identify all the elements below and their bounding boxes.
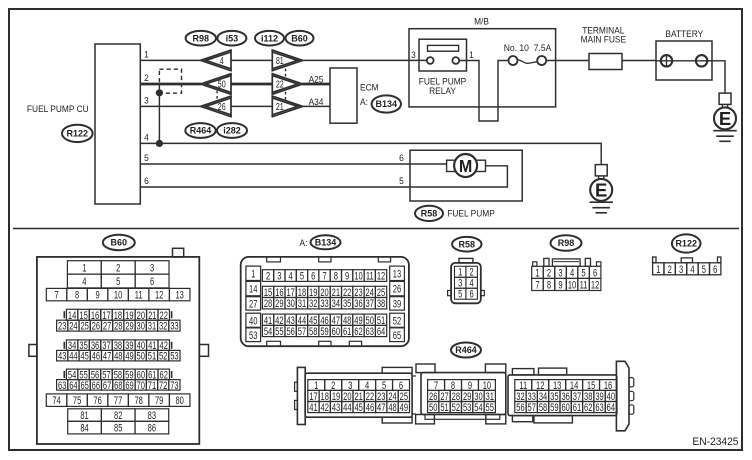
svg-text:21: 21 xyxy=(276,101,284,113)
svg-text:14: 14 xyxy=(249,283,257,296)
fuel pump box xyxy=(410,150,522,201)
svg-text:4: 4 xyxy=(690,263,694,276)
relay label FUEL PUMP RELAY xyxy=(419,76,467,96)
wire terminal main fuse to battery xyxy=(622,60,656,62)
junction dot on wire 4 xyxy=(156,140,163,147)
wire 3 segment A34 to ECM xyxy=(302,105,330,107)
svg-text:62: 62 xyxy=(584,402,592,415)
svg-text:No. 10: No. 10 xyxy=(504,43,529,54)
svg-text:49: 49 xyxy=(125,350,133,363)
B134 pins 28-38 row xyxy=(262,298,386,311)
connector symbol 21 on wire 3 xyxy=(272,96,303,117)
connector view B134 shell xyxy=(241,257,409,346)
svg-text:6: 6 xyxy=(144,176,149,187)
R464 section 3 body xyxy=(508,368,617,423)
svg-text:77: 77 xyxy=(114,395,122,408)
svg-text:2: 2 xyxy=(266,270,270,283)
svg-text:58: 58 xyxy=(309,326,317,339)
R464 section 2 body xyxy=(416,364,506,424)
R464 right end cap xyxy=(616,361,633,431)
svg-text:28: 28 xyxy=(264,298,272,311)
R58 pin grid xyxy=(455,266,478,301)
svg-text:50: 50 xyxy=(429,402,437,415)
svg-text:66: 66 xyxy=(92,379,100,392)
svg-text:34: 34 xyxy=(332,298,340,311)
connector symbol 26 on wire 3 xyxy=(201,96,232,117)
svg-text:35: 35 xyxy=(343,298,351,311)
svg-text:26: 26 xyxy=(218,101,226,113)
B60 pins 7-13 row xyxy=(46,288,190,302)
fuse No.10 left terminal xyxy=(509,56,518,65)
svg-text:46: 46 xyxy=(92,350,100,363)
svg-text:65: 65 xyxy=(393,329,401,342)
svg-text:1: 1 xyxy=(82,262,86,275)
svg-text:R98: R98 xyxy=(558,238,575,248)
svg-text:86: 86 xyxy=(148,422,156,435)
svg-text:5: 5 xyxy=(116,276,120,289)
svg-text:45: 45 xyxy=(80,350,88,363)
svg-text:58: 58 xyxy=(539,402,547,415)
battery box xyxy=(656,28,712,80)
svg-text:4: 4 xyxy=(144,132,149,143)
svg-text:26: 26 xyxy=(92,320,100,333)
svg-text:64: 64 xyxy=(607,402,615,415)
battery ground wire xyxy=(707,61,725,93)
wire 1 segment CU to connector i53 xyxy=(141,59,202,61)
fuel pump oval R58 xyxy=(415,206,443,221)
relay coil bar xyxy=(428,45,459,51)
svg-text:4: 4 xyxy=(289,270,293,283)
svg-text:70: 70 xyxy=(137,379,145,392)
svg-text:22: 22 xyxy=(276,78,284,90)
svg-text:79: 79 xyxy=(155,395,163,408)
B60 pins 14-22 row xyxy=(64,309,171,322)
svg-text:30: 30 xyxy=(137,320,145,333)
connector view R58 shell xyxy=(448,258,485,303)
svg-text:5: 5 xyxy=(702,263,706,276)
svg-text:43: 43 xyxy=(58,350,66,363)
svg-text:41: 41 xyxy=(309,402,317,415)
svg-text:12: 12 xyxy=(155,289,163,302)
svg-text:i53: i53 xyxy=(226,33,239,43)
svg-text:53: 53 xyxy=(170,350,178,363)
svg-text:46: 46 xyxy=(366,402,374,415)
connector view B134 label xyxy=(300,235,341,249)
svg-text:61: 61 xyxy=(573,402,581,415)
fuel pump control unit box xyxy=(27,44,140,204)
svg-text:5: 5 xyxy=(300,270,304,283)
svg-text:MAIN FUSE: MAIN FUSE xyxy=(581,34,627,45)
svg-text:81: 81 xyxy=(276,55,284,67)
svg-text:53: 53 xyxy=(249,329,257,342)
svg-text:11: 11 xyxy=(366,270,374,283)
svg-text:1: 1 xyxy=(469,49,474,60)
B134 right pin column xyxy=(390,266,405,342)
wire 4 shield drain to ground xyxy=(141,143,602,164)
svg-text:6: 6 xyxy=(399,153,404,164)
svg-text:84: 84 xyxy=(80,422,88,435)
svg-text:63: 63 xyxy=(366,326,374,339)
svg-text:50: 50 xyxy=(218,78,226,90)
dashed link between connectors 81 and 22 xyxy=(285,69,287,80)
svg-text:B60: B60 xyxy=(111,238,128,248)
relay contact pin 1 xyxy=(452,57,459,64)
svg-text:5: 5 xyxy=(458,288,462,301)
svg-text:13: 13 xyxy=(393,268,401,281)
svg-text:10: 10 xyxy=(568,279,576,292)
svg-text:12: 12 xyxy=(591,279,599,292)
connector view R98 oval xyxy=(551,235,582,251)
relay contact pin 3 xyxy=(427,57,434,64)
svg-text:3: 3 xyxy=(679,263,683,276)
svg-text:64: 64 xyxy=(69,379,77,392)
svg-text:30: 30 xyxy=(286,298,294,311)
connector oval R464 xyxy=(185,123,215,138)
svg-text:53: 53 xyxy=(463,402,471,415)
B60 pins 74-80 row xyxy=(46,394,190,408)
svg-text:6: 6 xyxy=(470,288,474,301)
svg-text:40: 40 xyxy=(249,315,257,328)
svg-text:BATTERY: BATTERY xyxy=(665,28,703,39)
svg-text:60: 60 xyxy=(561,402,569,415)
svg-text:E: E xyxy=(595,180,607,201)
svg-text:RELAY: RELAY xyxy=(429,86,456,97)
main fuse box M/B xyxy=(409,16,556,107)
svg-text:6: 6 xyxy=(150,276,154,289)
svg-text:31: 31 xyxy=(298,298,306,311)
svg-text:65: 65 xyxy=(80,379,88,392)
svg-text:9: 9 xyxy=(96,289,100,302)
svg-text:M/B: M/B xyxy=(474,16,489,27)
ground E battery side xyxy=(713,93,736,141)
svg-text:10: 10 xyxy=(354,270,362,283)
svg-text:25: 25 xyxy=(80,320,88,333)
R464 pins 1-6 row xyxy=(308,380,410,393)
wire 2 segment between connectors (bold) xyxy=(231,83,272,86)
svg-text:8: 8 xyxy=(334,270,338,283)
svg-text:12: 12 xyxy=(377,270,385,283)
B60 pins 43-53 row xyxy=(57,350,180,363)
svg-text:44: 44 xyxy=(69,350,77,363)
svg-text:4: 4 xyxy=(82,276,86,289)
shield dashed box on wire 2 xyxy=(159,69,181,93)
connector R122 oval label xyxy=(62,125,93,142)
svg-text:ECM: ECM xyxy=(360,82,379,93)
svg-text:81: 81 xyxy=(80,410,88,423)
svg-text:7: 7 xyxy=(322,270,326,283)
battery positive terminal xyxy=(661,55,672,66)
B134 pins 2-12 row xyxy=(262,270,386,283)
connector symbol 50 on wire 2 xyxy=(201,73,232,94)
connector view R464 oval xyxy=(451,343,481,358)
svg-text:3: 3 xyxy=(411,49,416,60)
svg-text:6: 6 xyxy=(311,270,315,283)
svg-text:13: 13 xyxy=(175,289,183,302)
svg-text:R464: R464 xyxy=(190,126,212,136)
svg-text:FUEL PUMP CU: FUEL PUMP CU xyxy=(27,104,89,115)
B134 shell bottom notches xyxy=(267,341,362,346)
R464 pins 32-40 row xyxy=(515,390,617,403)
svg-text:51: 51 xyxy=(148,350,156,363)
svg-text:51: 51 xyxy=(440,402,448,415)
svg-text:55: 55 xyxy=(275,326,283,339)
connector view R98 shell top tabs xyxy=(533,258,601,266)
svg-text:69: 69 xyxy=(125,379,133,392)
battery negative terminal xyxy=(696,55,707,66)
R464 pins 26-31 row xyxy=(428,390,496,403)
svg-text:FUEL PUMP: FUEL PUMP xyxy=(447,208,495,219)
svg-text:64: 64 xyxy=(377,326,385,339)
R464 left end cap xyxy=(295,367,306,424)
svg-text:78: 78 xyxy=(134,395,142,408)
svg-text:76: 76 xyxy=(93,395,101,408)
wire 5 segment CU to fuel pump xyxy=(141,163,447,165)
connector symbol 22 on wire 2 xyxy=(272,73,303,94)
svg-text:47: 47 xyxy=(377,402,385,415)
svg-text:49: 49 xyxy=(400,402,408,415)
B60 pins 1-3 row xyxy=(67,261,169,275)
connector view R58 oval xyxy=(452,237,481,252)
svg-text:43: 43 xyxy=(332,402,340,415)
fuel pump motor M xyxy=(454,154,477,177)
connector view R122 shell tabs xyxy=(653,257,721,263)
svg-text:7.5A: 7.5A xyxy=(534,43,552,54)
svg-text:8: 8 xyxy=(75,289,79,302)
connector view R122 oval xyxy=(672,234,701,252)
svg-text:B134: B134 xyxy=(376,99,398,109)
B60 pins 23-33 row xyxy=(57,320,180,333)
connector symbol 81 on wire 1 xyxy=(272,50,303,71)
svg-text:56: 56 xyxy=(516,402,524,415)
B60 pins 54-62 row xyxy=(64,369,171,382)
svg-text:11: 11 xyxy=(135,289,143,302)
svg-text:A:: A: xyxy=(360,97,368,108)
svg-text:67: 67 xyxy=(103,379,111,392)
wire 1 segment between connectors xyxy=(231,59,272,61)
svg-text:38: 38 xyxy=(377,298,385,311)
fuel pump motor left terminal xyxy=(447,160,457,171)
ECM box xyxy=(330,68,379,123)
svg-text:7: 7 xyxy=(535,279,539,292)
svg-text:59: 59 xyxy=(550,402,558,415)
svg-text:60: 60 xyxy=(332,326,340,339)
R464 section 1 body xyxy=(305,367,412,423)
svg-text:48: 48 xyxy=(114,350,122,363)
wire 3 segment between connectors xyxy=(231,105,272,107)
svg-text:M: M xyxy=(459,156,472,176)
B134 left pin column xyxy=(246,266,261,342)
svg-text:45: 45 xyxy=(354,402,362,415)
section separator line xyxy=(13,228,739,230)
svg-text:63: 63 xyxy=(58,379,66,392)
ECM connector oval B134 xyxy=(372,95,401,112)
svg-text:73: 73 xyxy=(170,379,178,392)
svg-text:11: 11 xyxy=(580,279,588,292)
B60 pins 63-73 row xyxy=(57,379,180,392)
svg-text:47: 47 xyxy=(103,350,111,363)
svg-text:1: 1 xyxy=(656,263,660,276)
svg-text:29: 29 xyxy=(125,320,133,333)
R464 pins 11-16 row xyxy=(515,380,617,393)
svg-text:33: 33 xyxy=(320,298,328,311)
svg-text:42: 42 xyxy=(321,402,329,415)
svg-text:27: 27 xyxy=(249,298,257,311)
junction dot on shield box xyxy=(156,89,163,96)
svg-text:55: 55 xyxy=(486,402,494,415)
svg-text:52: 52 xyxy=(159,350,167,363)
svg-text:i282: i282 xyxy=(223,126,241,136)
fuse No.10 right terminal xyxy=(537,56,546,65)
svg-text:31: 31 xyxy=(148,320,156,333)
battery internal wire xyxy=(656,60,712,62)
svg-text:57: 57 xyxy=(528,402,536,415)
svg-text:28: 28 xyxy=(114,320,122,333)
connector view B60 shell xyxy=(29,248,209,444)
svg-text:B60: B60 xyxy=(291,33,308,43)
svg-text:33: 33 xyxy=(170,320,178,333)
svg-text:32: 32 xyxy=(159,320,167,333)
B134 shell top notches xyxy=(267,257,391,262)
svg-text:54: 54 xyxy=(474,402,482,415)
B134 pins 41-51 row xyxy=(262,314,386,327)
R464 pins 56-64 row xyxy=(515,402,617,415)
fuse No.10 label xyxy=(504,43,552,54)
svg-text:2: 2 xyxy=(144,73,149,84)
svg-text:R98: R98 xyxy=(193,33,210,43)
R464 pins 17-25 row xyxy=(308,390,410,403)
wire 6 segment CU to fuel pump xyxy=(141,166,508,187)
R464 pins 50-55 row xyxy=(428,402,496,415)
B60 pins 34-42 row xyxy=(64,340,171,353)
B60 pins 4-6 row xyxy=(67,274,169,288)
svg-text:4: 4 xyxy=(220,55,224,67)
fuse element curve xyxy=(517,60,537,64)
connector symbol 4 on wire 1 xyxy=(201,50,232,71)
svg-text:R58: R58 xyxy=(421,209,438,219)
svg-text:R58: R58 xyxy=(459,239,476,249)
svg-text:59: 59 xyxy=(320,326,328,339)
B60 pins 84-86 row xyxy=(68,421,169,435)
svg-text:8: 8 xyxy=(547,279,551,292)
svg-text:56: 56 xyxy=(286,326,294,339)
svg-text:44: 44 xyxy=(343,402,351,415)
svg-text:36: 36 xyxy=(354,298,362,311)
connector oval R98 xyxy=(186,31,216,46)
R122 pin row xyxy=(653,263,721,277)
connector oval i53 xyxy=(217,31,246,46)
svg-text:2: 2 xyxy=(668,263,672,276)
svg-text:E: E xyxy=(719,108,731,129)
svg-text:3: 3 xyxy=(150,262,154,275)
svg-text:37: 37 xyxy=(366,298,374,311)
svg-text:72: 72 xyxy=(159,379,167,392)
svg-text:63: 63 xyxy=(595,402,603,415)
svg-text:i112: i112 xyxy=(261,33,278,43)
svg-text:7: 7 xyxy=(54,289,58,302)
R464 link slot between section 1 and 2 xyxy=(412,376,416,414)
svg-text:24: 24 xyxy=(69,320,77,333)
svg-text:9: 9 xyxy=(558,279,562,292)
svg-text:74: 74 xyxy=(52,395,60,408)
R464 pins 41-49 row xyxy=(308,402,410,415)
svg-text:68: 68 xyxy=(114,379,122,392)
svg-text:29: 29 xyxy=(275,298,283,311)
fuel pump motor right terminal xyxy=(476,160,486,171)
B60 pins 81-83 row xyxy=(68,409,169,423)
svg-text:R122: R122 xyxy=(675,239,697,249)
svg-text:62: 62 xyxy=(354,326,362,339)
connector oval B60 xyxy=(286,31,314,46)
svg-text:39: 39 xyxy=(393,298,401,311)
connector view B60 oval xyxy=(103,235,135,250)
svg-text:52: 52 xyxy=(393,315,401,328)
svg-text:1: 1 xyxy=(144,49,149,60)
svg-text:52: 52 xyxy=(452,402,460,415)
svg-text:61: 61 xyxy=(343,326,351,339)
svg-text:50: 50 xyxy=(137,350,145,363)
svg-text:75: 75 xyxy=(73,395,81,408)
svg-text:26: 26 xyxy=(393,283,401,296)
svg-text:48: 48 xyxy=(388,402,396,415)
svg-text:10: 10 xyxy=(114,289,122,302)
shield drain vertical wire xyxy=(158,93,160,144)
svg-text:R122: R122 xyxy=(67,129,89,139)
wire fuse to terminal main fuse xyxy=(546,60,589,62)
svg-text:5: 5 xyxy=(399,176,404,187)
svg-text:R464: R464 xyxy=(455,345,477,355)
svg-text:2: 2 xyxy=(116,262,120,275)
B134 pins 54-64 row xyxy=(262,325,386,338)
svg-text:A25: A25 xyxy=(309,74,324,85)
svg-text:6: 6 xyxy=(713,263,717,276)
svg-text:71: 71 xyxy=(148,379,156,392)
dashed link between connectors 50 and 26 xyxy=(216,91,218,101)
svg-text:A34: A34 xyxy=(309,96,324,107)
svg-text:23: 23 xyxy=(58,320,66,333)
R98 pin grid xyxy=(532,266,601,292)
terminal main fuse box xyxy=(581,25,627,69)
wire 3 segment CU to connector i282 xyxy=(141,105,202,107)
connector oval i112 xyxy=(255,31,284,46)
ground E shield side xyxy=(590,165,613,213)
svg-text:3: 3 xyxy=(144,95,149,106)
svg-text:27: 27 xyxy=(103,320,111,333)
svg-text:1: 1 xyxy=(251,268,255,281)
svg-text:9: 9 xyxy=(345,270,349,283)
svg-text:82: 82 xyxy=(114,410,122,423)
svg-text:3: 3 xyxy=(277,270,281,283)
wire 2 segment A25 to ECM (bold) xyxy=(302,83,330,86)
B134 pins 15-25 row xyxy=(262,286,386,299)
wire 1 segment to relay pin 3 xyxy=(302,59,427,61)
svg-text:54: 54 xyxy=(264,326,272,339)
wire relay pin1 to fuse loop xyxy=(459,61,508,122)
svg-text:83: 83 xyxy=(148,410,156,423)
svg-text:5: 5 xyxy=(144,153,149,164)
svg-text:85: 85 xyxy=(114,422,122,435)
fuel pump relay box xyxy=(419,39,467,71)
wire 2 segment CU to connector i53 (bold) xyxy=(141,83,202,86)
svg-text:32: 32 xyxy=(309,298,317,311)
svg-text:B134: B134 xyxy=(315,238,337,248)
dashed link between connectors 22 and 21 xyxy=(285,92,287,103)
svg-text:80: 80 xyxy=(175,395,183,408)
svg-text:EN-23425: EN-23425 xyxy=(692,436,738,448)
R464 pins 7-10 row xyxy=(428,380,496,393)
svg-text:57: 57 xyxy=(298,326,306,339)
connector oval i282 xyxy=(217,123,247,138)
svg-text:A:: A: xyxy=(300,238,308,249)
